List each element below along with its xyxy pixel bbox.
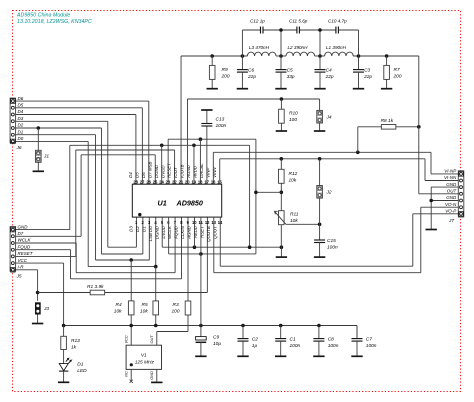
svg-text:V1: V1 — [141, 353, 147, 359]
node DGND pin24 — [160, 144, 164, 148]
node J2 top — [318, 157, 322, 161]
wire J3 to ground — [37, 315, 39, 324]
svg-text:D6: D6 — [141, 172, 146, 178]
wire V1 NC stub — [130, 369, 133, 383]
pin label GND of V1 — [149, 371, 154, 380]
ground R11 — [276, 256, 287, 258]
wire DGND5 stub — [162, 217, 281, 247]
node C8 rail — [317, 324, 321, 328]
wire J1 to ground — [37, 162, 39, 171]
svg-text:D1: D1 — [77, 361, 83, 367]
svg-text:RESET: RESET — [167, 163, 172, 178]
svg-text:C13: C13 — [216, 117, 225, 123]
svg-text:200: 200 — [221, 73, 230, 79]
wire C15 gnd — [319, 243, 321, 257]
node R7 tap — [385, 54, 389, 58]
wire RSET right — [105, 217, 208, 292]
resistor R5 10k — [140, 301, 159, 315]
node D0-R5 junction — [154, 265, 158, 269]
pin numbers top 28-15 — [133, 179, 222, 184]
svg-text:D0: D0 — [18, 136, 24, 141]
svg-text:DVDD: DVDD — [160, 165, 165, 178]
svg-text:R3: R3 — [173, 302, 179, 308]
wire C4 gnd — [319, 72, 321, 88]
svg-text:C9: C9 — [213, 335, 219, 341]
svg-text:C7: C7 — [366, 337, 372, 343]
node I-R junction — [36, 291, 40, 295]
capacitor C9 10u — [196, 326, 222, 348]
node topcap1 — [279, 28, 283, 32]
svg-text:AD9850 China Module: AD9850 China Module — [16, 12, 70, 18]
wire DGND stub — [161, 145, 163, 184]
svg-text:D3: D3 — [129, 226, 134, 232]
wire RESET — [16, 150, 175, 256]
wire D5 — [16, 108, 143, 184]
node R9 tap — [210, 54, 214, 58]
svg-text:VINP: VINP — [205, 168, 210, 178]
wire R11 bottom — [280, 225, 282, 248]
svg-text:125 MHz: 125 MHz — [135, 359, 155, 365]
node AVDD pin11 — [199, 252, 203, 256]
wire R5 bottom — [155, 315, 157, 326]
svg-text:GND: GND — [446, 182, 457, 187]
node filter4 — [357, 54, 361, 58]
wire IOUT to filter — [180, 56, 182, 184]
inductor L1 390nH — [325, 45, 354, 56]
wire J7 GND pin5 — [431, 200, 458, 202]
svg-text:RESET: RESET — [18, 251, 34, 256]
svg-text:AGND: AGND — [187, 225, 192, 240]
wire D3 — [16, 121, 137, 247]
wire R10 gnd — [280, 123, 282, 130]
wire DVDD23 stub — [168, 139, 256, 184]
wire OUT drop — [419, 56, 459, 194]
svg-text:J1: J1 — [43, 153, 49, 159]
ground C6 — [237, 88, 248, 90]
ground C2 — [237, 355, 248, 357]
wire C3 gnd — [358, 72, 360, 88]
pin labels bottom — [129, 225, 218, 242]
svg-text:IOUTB: IOUTB — [180, 164, 185, 177]
wire R9 gnd — [211, 79, 213, 88]
node filter3 — [318, 54, 322, 58]
pin label OUT of V1 — [149, 335, 154, 344]
ground R7 — [381, 88, 392, 90]
svg-text:D4: D4 — [128, 172, 133, 178]
ground R10 — [276, 130, 287, 132]
jumper J4 — [317, 99, 332, 123]
wire VINP — [213, 152, 458, 184]
wire DACBL stub — [206, 139, 208, 184]
svg-text:10k: 10k — [289, 177, 297, 183]
svg-text:DACBL: DACBL — [199, 163, 204, 178]
capacitor C5 — [276, 56, 295, 80]
wire J1 feed — [37, 128, 39, 150]
node R4 rail — [129, 324, 133, 328]
svg-text:VINN: VINN — [212, 167, 217, 178]
svg-text:C12 1p: C12 1p — [250, 19, 265, 24]
node R4 on D1 line — [129, 258, 133, 262]
wire R12-R11 — [280, 183, 282, 210]
node C2 rail — [241, 324, 245, 328]
svg-text:VO-P: VO-P — [445, 209, 456, 214]
node C1 rail — [279, 324, 283, 328]
svg-text:C8: C8 — [328, 337, 334, 343]
capacitor C12 1p — [250, 19, 265, 34]
resistor R3 100 — [172, 301, 191, 315]
wire R4 to VCC rail — [130, 315, 132, 345]
wire J2 to C15 — [319, 198, 321, 240]
svg-text:RSET: RSET — [199, 226, 204, 238]
svg-text:QOUTB: QOUTB — [206, 226, 211, 242]
wire D0 — [16, 141, 156, 266]
ground C15 — [314, 256, 325, 258]
svg-text:VCC: VCC — [18, 258, 28, 263]
svg-text:R11: R11 — [290, 211, 299, 217]
svg-text:100: 100 — [172, 308, 180, 314]
wire C8 to ground — [318, 341, 320, 356]
connector J7 — [448, 171, 464, 224]
svg-text:D7: D7 — [18, 231, 24, 236]
op-amp U1 AD9850 chip body — [132, 184, 221, 217]
ground C3 — [353, 88, 364, 90]
svg-text:22p: 22p — [363, 74, 372, 80]
wire RSET left — [38, 292, 91, 294]
svg-text:J3: J3 — [43, 306, 49, 312]
ground C1 — [275, 355, 286, 357]
svg-text:D1: D1 — [18, 129, 24, 134]
resistor R8 1k — [358, 118, 419, 152]
jumper J1 — [36, 150, 50, 162]
wire IOUTB — [188, 99, 320, 184]
ground V1 — [151, 381, 162, 383]
svg-text:GND: GND — [149, 371, 154, 380]
svg-text:WCLK: WCLK — [167, 225, 172, 239]
svg-text:C10 4.7p: C10 4.7p — [328, 19, 347, 24]
svg-text:FQUD: FQUD — [174, 225, 179, 238]
svg-text:R7: R7 — [394, 67, 400, 73]
svg-text:AD9850: AD9850 — [176, 199, 203, 208]
svg-text:AVDD: AVDD — [193, 165, 198, 179]
svg-text:33p: 33p — [287, 74, 295, 80]
svg-text:FQUD: FQUD — [18, 244, 31, 249]
ground R9 — [207, 88, 218, 90]
wire AGND stub — [193, 145, 195, 184]
wire R11 wiper — [286, 223, 320, 225]
svg-text:28: 28 — [133, 179, 138, 184]
pin label VCC of V1 — [124, 335, 129, 343]
wire C6 gnd — [241, 72, 243, 88]
svg-text:100n: 100n — [366, 343, 377, 349]
node VCC-R13 — [62, 324, 66, 328]
svg-text:D5: D5 — [134, 172, 139, 178]
connector J5 — [10, 227, 22, 280]
svg-text:J4: J4 — [326, 115, 332, 121]
capacitor C6 — [237, 56, 256, 80]
node GND drop joint — [248, 245, 252, 249]
svg-text:22p: 22p — [325, 74, 334, 80]
trimmer R11 10k — [274, 211, 298, 225]
wire AVDD11 stub — [200, 217, 202, 254]
wire QOUT VO-P — [220, 214, 458, 266]
ground J7 — [426, 229, 437, 231]
svg-text:R12: R12 — [289, 171, 298, 177]
node R8-VINP — [356, 151, 360, 155]
capacitor C4 — [315, 56, 334, 80]
svg-text:22p: 22p — [247, 74, 256, 80]
svg-text:IOUT: IOUT — [173, 167, 178, 178]
svg-text:DGND: DGND — [154, 164, 159, 178]
capacitor C7 — [352, 326, 377, 350]
connector J6 — [10, 98, 22, 151]
capacitor C11 5.6p — [289, 19, 308, 34]
inductor L2 390nH — [286, 45, 315, 56]
svg-text:C3: C3 — [364, 67, 370, 73]
svg-text:24: 24 — [159, 179, 164, 184]
svg-text:AGND: AGND — [186, 164, 191, 179]
svg-text:CLKIN: CLKIN — [180, 225, 185, 239]
capacitor C10 4.7p — [328, 19, 347, 34]
wire R5 top — [155, 267, 157, 301]
title text — [16, 12, 92, 25]
wire VCC from J5 — [16, 263, 64, 325]
svg-text:D2: D2 — [135, 226, 140, 232]
wire VCC link down — [200, 254, 202, 326]
svg-text:D5: D5 — [18, 103, 24, 108]
wire D2 — [16, 128, 143, 254]
jumper J3 (closed) — [35, 302, 49, 314]
svg-text:J2: J2 — [326, 189, 332, 195]
wire I-R — [16, 270, 38, 301]
svg-text:D4: D4 — [18, 109, 24, 114]
wire AGND10 stub — [193, 217, 195, 247]
svg-text:13.10.2018, LZ2WSG, KN34PC: 13.10.2018, LZ2WSG, KN34PC — [17, 19, 92, 25]
svg-text:100n: 100n — [327, 244, 338, 250]
node AGND pin19 — [192, 144, 196, 148]
svg-text:VI-NN: VI-NN — [444, 175, 457, 180]
svg-text:QOUT: QOUT — [212, 226, 217, 239]
ground J4 — [314, 130, 325, 132]
resistor R12 10k — [279, 159, 298, 184]
svg-text:DGND: DGND — [154, 225, 159, 239]
svg-text:12: 12 — [205, 220, 210, 225]
LED D1 — [59, 350, 87, 374]
capacitor C1 — [275, 326, 300, 350]
svg-text:C2: C2 — [252, 337, 258, 343]
wire GND rail — [70, 144, 250, 146]
ground C4 — [314, 88, 325, 90]
svg-text:J6: J6 — [16, 145, 22, 151]
ground C7 — [351, 355, 362, 357]
wire V1 GND stub — [156, 369, 158, 382]
wire D7 — [16, 155, 156, 237]
ground C9 — [195, 355, 206, 357]
wire C7 to ground — [356, 341, 358, 356]
svg-text:C11 5.6p: C11 5.6p — [289, 19, 308, 24]
ground D1 — [58, 381, 69, 383]
svg-text:D1: D1 — [141, 226, 146, 232]
ground C5 — [275, 88, 286, 90]
wire R3 to V1 OUT — [157, 315, 188, 345]
resistor R9 200 — [209, 56, 229, 79]
wire D1 — [16, 135, 150, 260]
svg-text:100n: 100n — [216, 123, 227, 129]
jumper J2 — [317, 159, 332, 198]
svg-text:VI-NP: VI-NP — [444, 169, 456, 174]
svg-text:OUT: OUT — [447, 189, 458, 194]
svg-text:R5: R5 — [142, 302, 148, 308]
node R12 top — [280, 157, 284, 161]
svg-text:R13: R13 — [71, 338, 80, 344]
svg-text:R10: R10 — [289, 110, 298, 116]
svg-text:J5: J5 — [16, 273, 22, 279]
svg-text:DVDD: DVDD — [161, 225, 166, 238]
node AVDD pin18 — [199, 137, 203, 141]
ground C8 — [313, 355, 324, 357]
node D2-J1 junction — [37, 126, 41, 130]
node R5 rail — [154, 324, 158, 328]
svg-text:100n: 100n — [328, 343, 339, 349]
svg-text:200: 200 — [393, 73, 402, 79]
svg-text:R1 3.9k: R1 3.9k — [87, 284, 104, 290]
net labels D6-D0 — [18, 96, 24, 141]
svg-text:L2 390nH: L2 390nH — [288, 45, 309, 50]
node wiper-C15 — [318, 223, 322, 227]
ground J1 — [33, 170, 44, 172]
svg-text:GND: GND — [18, 224, 29, 229]
svg-text:I-R: I-R — [18, 265, 25, 270]
wire QOUTB VO-N — [214, 207, 458, 273]
node C9 rail — [199, 324, 203, 328]
resistor R4 10k — [114, 301, 134, 315]
inductor L3 470nH — [247, 45, 276, 56]
svg-text:R9: R9 — [222, 67, 228, 73]
svg-text:C5: C5 — [287, 67, 293, 73]
svg-text:D6: D6 — [18, 96, 24, 101]
svg-text:GND: GND — [446, 195, 457, 200]
wire C2 to ground — [242, 341, 244, 356]
node AGND pin10 — [193, 245, 197, 249]
node VCC drop tap — [254, 191, 258, 195]
svg-text:C4: C4 — [326, 67, 332, 73]
svg-text:C6: C6 — [248, 67, 254, 73]
svg-text:10k: 10k — [290, 218, 298, 224]
node R10 tap — [280, 97, 284, 101]
wire R7 gnd — [386, 79, 388, 88]
capacitor C13 100n — [201, 111, 226, 140]
svg-text:U1: U1 — [158, 199, 167, 208]
node filter1 — [241, 54, 245, 58]
resistor R7 200 — [384, 56, 402, 79]
wire CLKIN stub — [187, 217, 189, 301]
wire filter main line — [181, 55, 419, 57]
wire C1 to ground — [280, 341, 282, 356]
node bias node — [280, 191, 284, 195]
svg-text:D2: D2 — [18, 123, 24, 128]
svg-text:19: 19 — [191, 179, 196, 184]
wire AVDD18 stub — [199, 139, 201, 184]
svg-text:VO-N: VO-N — [445, 202, 457, 207]
oscillator V1 125 MHz — [126, 345, 161, 369]
wire D4 — [16, 115, 136, 185]
pin numbers bottom 1-14 — [135, 220, 223, 225]
capacitor C8 — [313, 326, 338, 350]
node filter2 — [279, 54, 283, 58]
wire C9 to ground — [200, 342, 202, 356]
svg-text:10k: 10k — [114, 308, 122, 314]
svg-text:WCLK: WCLK — [18, 238, 32, 243]
wire C5 gnd — [280, 72, 282, 88]
svg-text:LED: LED — [77, 368, 87, 374]
svg-text:1k: 1k — [71, 344, 77, 350]
svg-text:10μ: 10μ — [213, 341, 221, 347]
svg-text:D3: D3 — [18, 116, 24, 121]
node R8-OUT — [417, 125, 421, 129]
svg-text:L3 470nH: L3 470nH — [249, 45, 270, 50]
node topcap2 — [318, 28, 322, 32]
svg-text:VCC: VCC — [124, 335, 129, 343]
wire LED to ground — [63, 371, 65, 382]
net labels J7 — [444, 169, 458, 214]
svg-text:100: 100 — [289, 117, 297, 123]
ground C13 (inverted) — [201, 109, 212, 111]
resistor R10 100 — [279, 99, 299, 123]
wire J7 GND pin3 — [431, 187, 458, 229]
wire GND from J5 — [16, 145, 70, 229]
svg-text:C1: C1 — [290, 337, 296, 343]
svg-text:26: 26 — [146, 179, 151, 184]
wire top cap line — [242, 30, 358, 56]
svg-text:L1 390nH: L1 390nH — [326, 45, 347, 50]
capacitor C15 100n — [314, 238, 338, 251]
node J7 GND — [429, 199, 433, 203]
node R11 ground joint — [280, 245, 284, 249]
pin labels top — [128, 161, 217, 178]
resistor R13 1k — [61, 326, 80, 351]
wire J4 gnd — [319, 123, 321, 131]
svg-text:LSB D0: LSB D0 — [148, 226, 153, 242]
wire C7 feed — [356, 326, 358, 339]
wire D6 — [16, 101, 149, 184]
svg-text:25: 25 — [153, 179, 158, 184]
wire VINN — [220, 159, 459, 184]
capacitor C2 — [238, 326, 259, 350]
svg-text:J7: J7 — [448, 218, 454, 224]
pin label NC of V1 — [124, 371, 129, 377]
wire VCC rail bottom — [64, 325, 357, 327]
svg-text:D7 MSB: D7 MSB — [147, 161, 152, 177]
svg-text:R8 1k: R8 1k — [381, 118, 394, 124]
wire VCC drop right — [255, 139, 257, 254]
svg-text:100n: 100n — [290, 343, 301, 349]
svg-text:22: 22 — [172, 179, 177, 184]
resistor R1 3.9k — [87, 284, 105, 295]
capacitor C3 — [353, 56, 372, 80]
ground J3 — [32, 323, 43, 325]
svg-text:AVDD: AVDD — [193, 225, 198, 239]
svg-text:NC: NC — [124, 371, 129, 377]
wire WCLK — [16, 217, 176, 273]
wire bias to VCC drop — [256, 191, 281, 193]
wire GND rail drop — [249, 145, 251, 247]
svg-text:1μ: 1μ — [252, 343, 258, 349]
wire R4 top — [130, 260, 132, 301]
net labels J5 — [18, 224, 34, 269]
svg-text:27: 27 — [140, 179, 145, 184]
svg-text:C15: C15 — [327, 238, 336, 244]
wire FQUD — [16, 217, 182, 279]
svg-text:R4: R4 — [116, 302, 122, 308]
